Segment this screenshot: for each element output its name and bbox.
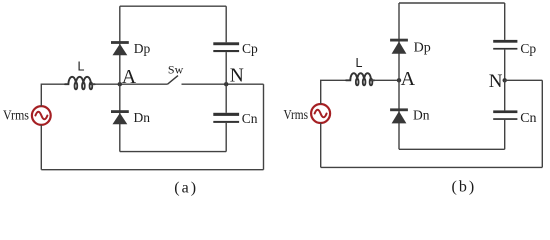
svg-text:Dp: Dp <box>134 41 151 56</box>
wire: Dp branch (b) <box>398 3 400 80</box>
wire: source top to inductor (b) <box>321 80 347 104</box>
svg-text:Cn: Cn <box>520 111 536 126</box>
capacitor Cp (a) <box>213 42 239 52</box>
wire: Cn branch upper (b) <box>504 80 506 110</box>
diode Dp (b) <box>390 39 408 54</box>
svg-text:A: A <box>122 66 137 88</box>
wire: Cp branch upper (a) <box>225 6 227 42</box>
wire: Cn branch lower (b) <box>504 120 506 149</box>
inductor L (b) <box>346 73 374 85</box>
wire: Cn branch upper (a) <box>225 84 227 113</box>
wire: inner bottom rail (b) <box>399 148 505 150</box>
voltage source Vrms (a) <box>32 106 51 125</box>
wire: source top to inductor (a) <box>41 84 67 106</box>
voltage source Vrms (b) <box>311 104 330 123</box>
wire: outer bottom rail (b) <box>321 166 543 168</box>
svg-text:Cn: Cn <box>242 111 258 126</box>
svg-text:L: L <box>78 60 85 74</box>
svg-text:Sw: Sw <box>168 63 184 77</box>
wire: node N to right edge (b) <box>505 79 543 81</box>
svg-text:N: N <box>230 66 244 87</box>
wire: Dn branch (b) <box>398 80 400 149</box>
wire: top rail (a) <box>120 5 226 7</box>
node A (b) <box>397 78 401 82</box>
wire: Cp branch upper (b) <box>504 3 506 40</box>
capacitor Cn (a) <box>213 113 239 123</box>
wire: top rail (b) <box>399 2 505 4</box>
node N (a) <box>224 82 228 86</box>
svg-text:(b): (b) <box>452 179 477 196</box>
svg-text:A: A <box>401 68 416 90</box>
wire: right edge (b) <box>541 80 543 167</box>
svg-text:Dn: Dn <box>413 108 430 123</box>
diode Dn (a) <box>111 110 129 124</box>
wire: switch to right edge through node N (a) <box>182 83 264 85</box>
svg-text:N: N <box>489 71 503 92</box>
wire: outer bottom rail (a) <box>41 169 263 171</box>
svg-text:Cp: Cp <box>242 41 258 56</box>
wire: inner bottom rail (a) <box>120 151 226 153</box>
diode Dn (b) <box>390 108 408 123</box>
wire: Cp branch lower (b) <box>504 50 506 81</box>
svg-text:Vrms: Vrms <box>3 109 29 124</box>
wire: source bottom (a) <box>40 125 42 170</box>
svg-text:L: L <box>356 56 363 70</box>
wire: Dn branch (a) <box>119 84 121 151</box>
svg-text:Dp: Dp <box>414 41 431 56</box>
svg-text:(a): (a) <box>174 180 198 197</box>
wire: inductor to node A (b) <box>371 79 399 81</box>
svg-text:Dn: Dn <box>134 110 151 125</box>
node N (b) <box>503 78 507 82</box>
wire: Dp branch (a) <box>119 6 121 84</box>
svg-text:Vrms: Vrms <box>284 108 309 123</box>
wire: Cp branch lower (a) <box>225 52 227 84</box>
node A (a) <box>118 82 122 86</box>
wire: Cn branch lower (a) <box>225 123 227 152</box>
switch Sw (a) <box>168 76 179 85</box>
capacitor Cp (b) <box>493 40 517 50</box>
svg-text:Cp: Cp <box>520 41 536 56</box>
wire: source bottom (b) <box>320 123 322 167</box>
inductor L (a) <box>65 77 95 90</box>
wire: right edge (a) <box>263 84 265 170</box>
diode Dp (a) <box>111 41 129 55</box>
wire: inductor to switch through node A (a) <box>91 83 167 85</box>
capacitor Cn (b) <box>493 110 517 119</box>
